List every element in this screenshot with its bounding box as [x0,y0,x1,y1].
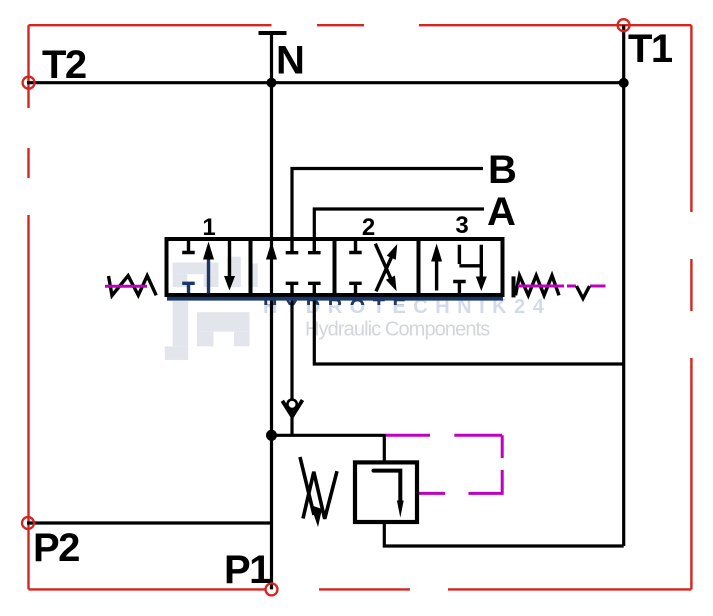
svg-text:A: A [487,190,516,234]
svg-text:P2: P2 [33,526,79,570]
svg-text:Hydraulic Components: Hydraulic Components [305,319,490,341]
svg-text:T1: T1 [628,27,673,71]
svg-text:3: 3 [455,212,468,239]
svg-text:P1: P1 [224,548,271,592]
svg-text:N: N [276,39,305,83]
svg-text:B: B [488,148,517,192]
svg-text:T2: T2 [42,43,86,87]
svg-text:1: 1 [202,214,215,241]
svg-text:2: 2 [362,214,375,241]
